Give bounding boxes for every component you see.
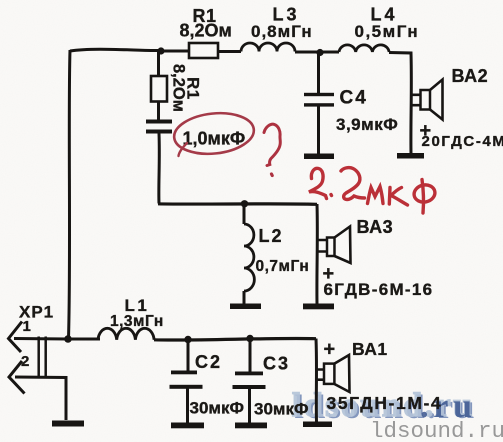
svg-text:3,9мкФ: 3,9мкФ [336, 115, 398, 134]
connector XP1 pin 2 arrow [9, 361, 25, 394]
svg-text:C2: C2 [195, 352, 222, 372]
node F junction dot [246, 335, 253, 342]
wire: L3 to node B to L4 [295, 51, 339, 54]
svg-text:C3: C3 [263, 354, 290, 374]
capacitor C2 30uF (polarized) [170, 371, 203, 389]
svg-text:ВА2: ВА2 [452, 66, 489, 86]
capacitor 1.0uF [146, 120, 172, 134]
capacitor C3 30uF (polarized) [233, 372, 266, 390]
red ellipse annotation around 1,0мкФ [172, 109, 256, 157]
connector body double lines [39, 337, 46, 379]
wire: stubs to speaker BA1 [317, 370, 325, 380]
node A junction dot [157, 47, 164, 54]
speaker BA2 [421, 80, 443, 120]
ground under XP1 pin2 [52, 421, 84, 427]
wire: top horizontal from corner to node A [70, 49, 161, 51]
wire: node A down to vertical resistor R1 [157, 51, 160, 76]
svg-text:+: + [324, 339, 336, 361]
svg-text:30мкФ: 30мкФ [254, 400, 309, 419]
ground under C2 [171, 423, 204, 429]
wire: C4 to ground [317, 106, 320, 154]
svg-text:35ГДН-1М-4: 35ГДН-1М-4 [327, 393, 443, 413]
wire: node A to resistor R1 (horizontal) [161, 50, 189, 53]
wire: node D to L1 [68, 338, 100, 341]
speaker BA3 [327, 227, 351, 264]
ground under C3 [235, 423, 267, 429]
svg-text:6ГДВ-6М-16: 6ГДВ-6М-16 [324, 280, 434, 299]
svg-text:8,2Ом: 8,2Ом [180, 21, 232, 41]
red 2.2мкФ annotation [309, 168, 437, 213]
inductor L3 0.8 mH [241, 43, 295, 52]
ground under BA2 branch [397, 153, 424, 159]
svg-text:ВА1: ВА1 [352, 339, 388, 359]
svg-text:0,5мГн: 0,5мГн [355, 22, 420, 41]
wire: node E down to C2 [187, 340, 190, 372]
svg-text:0,8мГн: 0,8мГн [251, 22, 313, 41]
wire: L1 to node E to node F to right corner [154, 338, 316, 340]
speaker BA1 [324, 355, 350, 392]
wire: stubs to speaker BA3 [318, 240, 327, 252]
inductor L1 1.3 mH [98, 328, 154, 339]
inductor L4 0.5 mH [339, 45, 389, 52]
svg-text:20ГДС-4М: 20ГДС-4М [422, 133, 503, 150]
red question mark annotation [264, 124, 280, 165]
node D junction dot [64, 335, 72, 343]
wire: mid horizontal to BA3 branch [158, 202, 317, 206]
red question mark dot [270, 174, 274, 176]
ground under BA1 [303, 422, 332, 428]
wire: R1v to capacitor 1.0uF [157, 102, 160, 121]
wire: pin1 to node D [14, 337, 68, 341]
wire: node F down to C3 [249, 339, 252, 373]
connector XP1 pin 1 arrow [9, 322, 23, 353]
svg-text:0,7мГн: 0,7мГн [256, 258, 310, 275]
resistor R1 (horizontal, 8.2 Ohm) [189, 43, 218, 58]
svg-text:2: 2 [21, 353, 29, 370]
node E junction dot [184, 336, 191, 343]
node C junction dot [241, 200, 248, 207]
watermark ldsound.ru (blue bold, behind 35ГДН label) [292, 387, 475, 426]
svg-text:C4: C4 [340, 88, 368, 109]
capacitor C4 3.9uF [304, 93, 334, 107]
ground under BA3 [303, 304, 334, 310]
wire: right corner down to BA1 and ground [315, 339, 319, 423]
red ellipse tail stroke [179, 143, 188, 156]
svg-text:1,0мкФ: 1,0мкФ [183, 129, 246, 149]
ground under C4 [304, 154, 334, 160]
wire: C3 to ground [248, 389, 251, 423]
svg-text:L2: L2 [259, 226, 284, 246]
wire: pin2 right then down to ground [15, 377, 66, 420]
svg-text:ВА3: ВА3 [357, 217, 394, 237]
wire: stubs to speaker BA2 [411, 95, 421, 105]
ground under L2 [230, 304, 261, 310]
svg-text:1: 1 [23, 318, 31, 335]
resistor R1 (vertical, 8.2 Ohm) [151, 76, 167, 102]
wire: R1 to L3 [218, 50, 241, 53]
wire: L4 to right corner and down to BA2 ground [389, 53, 411, 154]
wire: C2 to ground [186, 388, 189, 423]
svg-text:30мкФ: 30мкФ [190, 399, 245, 418]
svg-text:R1: R1 [184, 77, 203, 100]
wire: node B down to C4 [317, 53, 320, 93]
wire: L2 to ground [243, 291, 246, 304]
svg-text:ldsound.ru: ldsound.ru [370, 418, 503, 442]
svg-text:1,3мГн: 1,3мГн [110, 313, 164, 330]
wire: BA3 branch vertical down to ground [315, 204, 318, 304]
inductor L2 0.7 mH [244, 224, 254, 291]
wire: left vertical from top-left corner down to XP1 node [69, 50, 71, 339]
wire: capacitor down to mid horizontal wire [157, 134, 160, 204]
wire: node C down to L2 [243, 204, 246, 224]
node B junction dot [316, 49, 323, 56]
